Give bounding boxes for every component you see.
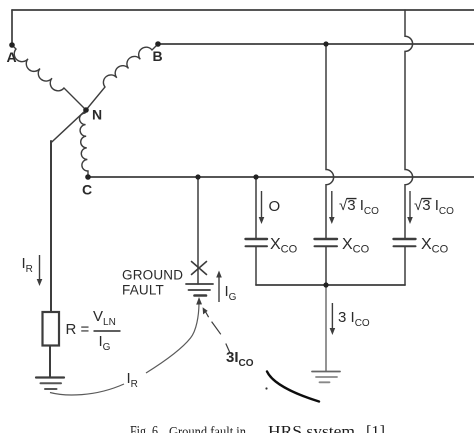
svg-text:A: A: [7, 49, 17, 65]
svg-text:[1]: [1]: [366, 424, 385, 433]
svg-text:IG: IG: [99, 333, 111, 353]
svg-text:GROUND: GROUND: [122, 267, 183, 282]
svg-text:O: O: [269, 198, 281, 215]
svg-text:Fig. 6.: Fig. 6.: [130, 424, 161, 433]
svg-text:R =: R =: [66, 321, 90, 338]
svg-text:√3 ICO: √3 ICO: [414, 197, 454, 217]
svg-text:HRS system: HRS system: [268, 424, 355, 433]
svg-text:IR: IR: [127, 370, 138, 390]
svg-text:IR: IR: [22, 255, 33, 275]
svg-text:3 ICO: 3 ICO: [338, 309, 370, 329]
svg-text:XCO: XCO: [270, 236, 298, 256]
svg-text:N: N: [92, 107, 102, 123]
svg-text:XCO: XCO: [342, 236, 370, 256]
svg-text:FAULT: FAULT: [122, 283, 164, 298]
svg-text:IG: IG: [225, 283, 237, 303]
svg-text:√3 ICO: √3 ICO: [339, 197, 379, 217]
svg-text:Ground fault in: Ground fault in: [169, 425, 246, 433]
svg-text:XCO: XCO: [421, 236, 449, 256]
svg-text:3ICO: 3ICO: [226, 349, 254, 369]
svg-text:VLN: VLN: [93, 308, 116, 328]
svg-text:C: C: [82, 182, 92, 198]
svg-text:B: B: [153, 48, 163, 64]
